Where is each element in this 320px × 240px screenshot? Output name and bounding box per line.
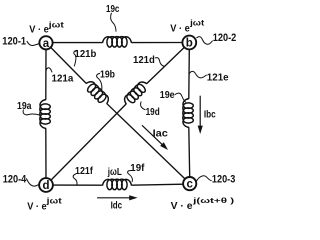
- svg-text:a: a: [43, 38, 50, 50]
- svg-text:121d: 121d: [133, 54, 155, 66]
- wire: left edge a-d upper part: [45, 49, 47, 99]
- node d: [39, 178, 53, 192]
- arrow Idc on bottom edge: [97, 195, 138, 200]
- wire: top edge a-b left part: [53, 42, 103, 44]
- inductor 19c on top edge: [103, 37, 132, 47]
- svg-text:Ibc: Ibc: [204, 109, 216, 121]
- wire: diagonal a-c upper part: [51, 47, 86, 83]
- leader 121f: [73, 174, 77, 185]
- svg-text:120-3: 120-3: [212, 174, 235, 186]
- wire: right edge b-c lower part: [188, 127, 191, 177]
- leader 121a: [46, 68, 52, 73]
- svg-text:121b: 121b: [75, 48, 97, 60]
- leader 121d: [155, 58, 164, 67]
- wire: diagonal a-c lower part: [107, 104, 185, 179]
- inductor 19e on right edge: [183, 99, 193, 128]
- leader 120-3: [196, 176, 211, 181]
- leader 19c: [110, 13, 116, 32]
- wire: diagonal b-d upper part: [147, 47, 185, 83]
- inductor 19b on diagonal a-c: [83, 79, 111, 107]
- svg-text:19c: 19c: [106, 4, 120, 15]
- svg-text:19d: 19d: [146, 107, 160, 118]
- arrow Ibc on right edge: [198, 96, 203, 134]
- svg-text:d: d: [42, 180, 49, 192]
- leader 120-4: [26, 178, 39, 186]
- svg-text:Idc: Idc: [111, 199, 123, 211]
- svg-text:121e: 121e: [207, 71, 229, 83]
- node c: [183, 177, 196, 190]
- svg-text:jωt: jωt: [45, 197, 62, 206]
- inductor 19f on bottom edge: [103, 179, 132, 189]
- leader 121e: [189, 71, 207, 77]
- node b: [182, 36, 196, 50]
- inductor 19d on diagonal b-d: [122, 79, 150, 107]
- svg-text:19f: 19f: [130, 163, 145, 174]
- svg-text:19b: 19b: [100, 69, 115, 80]
- svg-text:120-1: 120-1: [2, 35, 26, 47]
- leader 19d: [141, 102, 146, 110]
- wire: top edge a-b right part: [131, 42, 182, 44]
- svg-text:120-4: 120-4: [3, 174, 27, 186]
- wire: diagonal b-d lower part: [51, 104, 126, 180]
- svg-text:jωt: jωt: [189, 18, 205, 27]
- svg-text:V · e: V · e: [27, 200, 47, 212]
- svg-text:c: c: [186, 179, 193, 191]
- leader 19f: [128, 170, 133, 182]
- svg-text:19e: 19e: [160, 90, 175, 101]
- leader 120-2: [196, 37, 212, 45]
- arrow Iac along diagonal a-c: [142, 125, 168, 150]
- svg-text:jωL: jωL: [107, 167, 122, 178]
- leader 19a: [23, 110, 40, 116]
- svg-text:jωt: jωt: [48, 20, 65, 29]
- leader 121b: [74, 50, 77, 66]
- svg-text:j(ωt+θ ): j(ωt+θ ): [192, 196, 235, 205]
- leader 19e: [175, 93, 186, 102]
- wire: bottom edge d-c right part: [131, 184, 183, 185]
- node a: [39, 36, 52, 49]
- inductor 19a on left edge: [40, 100, 50, 129]
- wire: bottom edge d-c left part: [53, 184, 103, 186]
- svg-text:V · e: V · e: [171, 200, 193, 212]
- svg-text:19a: 19a: [17, 101, 32, 112]
- svg-text:120-2: 120-2: [213, 32, 237, 44]
- svg-text:V · e: V · e: [29, 24, 49, 36]
- svg-text:121a: 121a: [52, 73, 74, 85]
- svg-text:V · e: V · e: [170, 23, 190, 35]
- leader 120-1: [27, 41, 40, 46]
- leader 19b: [97, 73, 102, 92]
- svg-text:b: b: [186, 38, 193, 50]
- svg-text:121f: 121f: [75, 165, 93, 177]
- wire: right edge b-c upper part: [188, 49, 191, 98]
- svg-text:Iac: Iac: [153, 128, 168, 140]
- wire: left edge a-d lower part: [45, 128, 47, 178]
